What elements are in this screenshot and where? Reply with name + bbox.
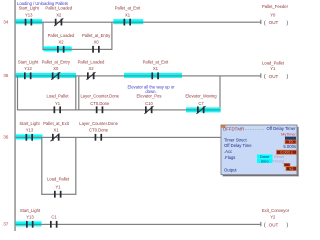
svg-text:MyTimer: MyTimer: [281, 132, 296, 136]
svg-text:Start_Light: Start_Light: [20, 208, 41, 213]
power-flow highlight rung 37 seg1: [16, 221, 42, 226]
svg-text:35: 35: [3, 73, 9, 78]
power-flow highlight rung 35 seg2 (X1): [124, 73, 182, 78]
wire rung 34 main: [16, 22, 261, 23]
svg-text:CT0.Done: CT0.Done: [89, 128, 109, 133]
svg-text:CT0.Done: CT0.Done: [90, 101, 110, 106]
svg-text:Y1: Y1: [55, 185, 61, 190]
svg-text:Pallet_at_Exit: Pallet_at_Exit: [143, 59, 169, 64]
svg-text:Load_Pallet: Load_Pallet: [46, 93, 69, 98]
svg-text:Y1: Y1: [55, 101, 61, 106]
wire rung 35 branch right vertical: [219, 76, 220, 110]
contact Y1 Load_Pallet (NO, off) rung 36 branch: [47, 177, 70, 198]
wire rung 36 branch right vertical: [75, 137, 76, 194]
power-flow highlight rung 35 branch (C7): [186, 107, 221, 112]
contact Y13 Start_Light (NO, on) rung 34: [19, 6, 40, 26]
svg-text:(: (: [264, 20, 266, 26]
wire rung 36 branch row: [41, 194, 76, 195]
wire rung 35 branch far-left vertical: [17, 76, 18, 110]
svg-text:.Acc: .Acc: [224, 149, 232, 154]
svg-text:X0: X0: [53, 66, 59, 71]
wire rung 34 branch right vertical: [111, 22, 112, 50]
contact X0 Pallet_at_Entry (NC, on) rung 35: [42, 59, 71, 79]
timer function block T0 OFFDTMR (Off Delay Timer): [221, 125, 299, 176]
contact X2 Pallet_Loaded (NC, off) rung 34: [45, 6, 72, 26]
svg-text:.Flags: .Flags: [224, 155, 235, 160]
svg-text:37: 37: [3, 222, 9, 227]
contact X1 Pallet_at_Exit (NO, on) rung 34: [115, 6, 141, 26]
svg-text:Pallet_at_Exit: Pallet_at_Exit: [43, 121, 69, 126]
svg-text:Output: Output: [224, 167, 237, 172]
wire rung 36 branch left vertical: [41, 137, 42, 194]
contact Y13 Start_Light (NO, on) rung 35: [18, 59, 39, 79]
contact X1 Pallet_at_Exit (NC, off) rung 36: [43, 121, 69, 141]
svg-text:Zero: Zero: [261, 158, 269, 163]
contact C7 Elevator_Moving (NC, on) rung 35 branch: [185, 93, 217, 113]
wire rung 35 branch mid vertical B: [78, 76, 79, 110]
svg-text:OFFDTMR: OFFDTMR: [223, 127, 244, 132]
svg-text:Off Delay Timer: Off Delay Timer: [266, 126, 296, 131]
power-flow highlight rung 34 seg1: [16, 19, 43, 24]
svg-text:X2: X2: [88, 66, 94, 71]
coil Y2 Exit_Conveyor (OUT) rung 37: [260, 208, 290, 229]
power-flow highlight rung 34 seg2 (X1): [113, 19, 143, 24]
svg-text:Y0: Y0: [270, 12, 276, 17]
power-flow highlight rung 35 seg1: [16, 73, 76, 78]
svg-text:Load_Pallet: Load_Pallet: [47, 177, 70, 182]
svg-text:OUT: OUT: [269, 222, 279, 227]
svg-text:Pallet_Loaded: Pallet_Loaded: [45, 6, 72, 11]
svg-text:): ): [286, 74, 288, 80]
contact X1 Pallet_at_Exit (NO, on) rung 35: [143, 59, 169, 79]
wire rung 37 main: [16, 224, 261, 225]
svg-text:Start_Light: Start_Light: [18, 59, 39, 64]
contact Y1 Load_Pallet (NO, off) rung 35 branch: [46, 93, 69, 113]
svg-text:Exit_Conveyor: Exit_Conveyor: [262, 208, 290, 213]
svg-text:C10: C10: [145, 101, 153, 106]
svg-text:Load_Pallet: Load_Pallet: [262, 61, 285, 66]
svg-text:X1: X1: [153, 66, 159, 71]
svg-text:X1: X1: [125, 12, 131, 17]
svg-text:Layer_Counter.Done: Layer_Counter.Done: [79, 121, 118, 126]
svg-text:Y2: Y2: [289, 167, 293, 171]
svg-text:Y2: Y2: [270, 215, 276, 220]
wire rung 36 main: [16, 137, 221, 138]
svg-text:C7: C7: [198, 101, 204, 106]
svg-text:Y13: Y13: [24, 66, 32, 71]
svg-text:(: (: [264, 223, 266, 229]
power-flow highlight rung 36 seg1: [16, 134, 43, 139]
svg-text:Y1: Y1: [270, 66, 276, 71]
svg-text:Pallet_at_Entry: Pallet_at_Entry: [82, 33, 111, 38]
contact CT0.Done Layer_Counter.Done (NO, off) rung 36: [79, 121, 118, 141]
svg-text:Pallet_at_Entry: Pallet_at_Entry: [42, 59, 71, 64]
contact C10 Elevator_Pos (NC, off) rung 35 branch: [137, 93, 162, 113]
svg-text:Timing: Timing: [273, 158, 285, 163]
contact Y13 Start_Light (NO, on) rung 36: [19, 121, 40, 141]
power-flow highlight rung 34 branch (X2): [43, 46, 71, 51]
wire rung 35 branch mid vertical A: [75, 76, 76, 110]
svg-text:X1: X1: [53, 128, 59, 133]
svg-text:Y13: Y13: [26, 215, 34, 220]
svg-text:C1: C1: [51, 215, 57, 220]
svg-text:Y13: Y13: [26, 128, 34, 133]
svg-text:36: 36: [3, 135, 9, 140]
svg-text:X2: X2: [56, 12, 62, 17]
contact CT0.Done Layer_Counter.Done (NO, off) rung 35 branch: [80, 93, 119, 113]
svg-text:Start_Light: Start_Light: [19, 121, 40, 126]
svg-text:X2: X2: [58, 40, 64, 45]
svg-text:Timer Struct: Timer Struct: [224, 137, 247, 142]
svg-text:(: (: [264, 74, 266, 80]
left power rail: [14, 0, 15, 231]
svg-text:Elevator_Pos: Elevator_Pos: [137, 93, 162, 98]
contact X2 Pallet_Loaded (NO, on) rung 34 branch: [48, 33, 75, 53]
wire rung 35 main: [16, 75, 261, 76]
svg-text:Pallet_at_Exit: Pallet_at_Exit: [115, 6, 141, 11]
coil Y1 Load_Pallet (OUT) rung 35: [260, 61, 288, 80]
svg-text:34: 34: [3, 20, 9, 25]
contact X0 Pallet_at_Entry (NO, off) rung 34 branch: [82, 33, 111, 53]
wire rung 35 branch row: [17, 109, 221, 110]
svg-text:Layer_Counter.Done: Layer_Counter.Done: [80, 93, 119, 98]
svg-text:X0: X0: [94, 40, 100, 45]
svg-text:Start_Light: Start_Light: [19, 6, 40, 11]
svg-text:5.000s: 5.000s: [283, 144, 296, 149]
svg-text:Pallet_Feeder: Pallet_Feeder: [262, 4, 289, 9]
svg-text:): ): [286, 223, 288, 229]
svg-text:Y13: Y13: [25, 12, 33, 17]
svg-text:): ): [286, 20, 288, 26]
contact Y13 Start_Light (NO, on) rung 37: [20, 208, 41, 228]
svg-text:OUT: OUT: [269, 74, 279, 79]
svg-text:Elevator_Moving: Elevator_Moving: [185, 93, 217, 98]
svg-text:Pallet_Loaded: Pallet_Loaded: [78, 59, 105, 64]
svg-text:OUT: OUT: [269, 20, 279, 25]
svg-text:Off Delay Time: Off Delay Time: [224, 143, 252, 148]
coil Y0 Pallet_Feeder (OUT) rung 34: [260, 4, 288, 26]
contact X2 Pallet_Loaded (NC, off) rung 35: [78, 59, 105, 79]
wire rung 34 branch row: [42, 49, 112, 50]
svg-text:Pallet_Loaded: Pallet_Loaded: [48, 33, 75, 38]
contact C1 (NO, off) rung 37: [50, 215, 58, 228]
wire rung 34 branch left vertical: [42, 22, 43, 50]
